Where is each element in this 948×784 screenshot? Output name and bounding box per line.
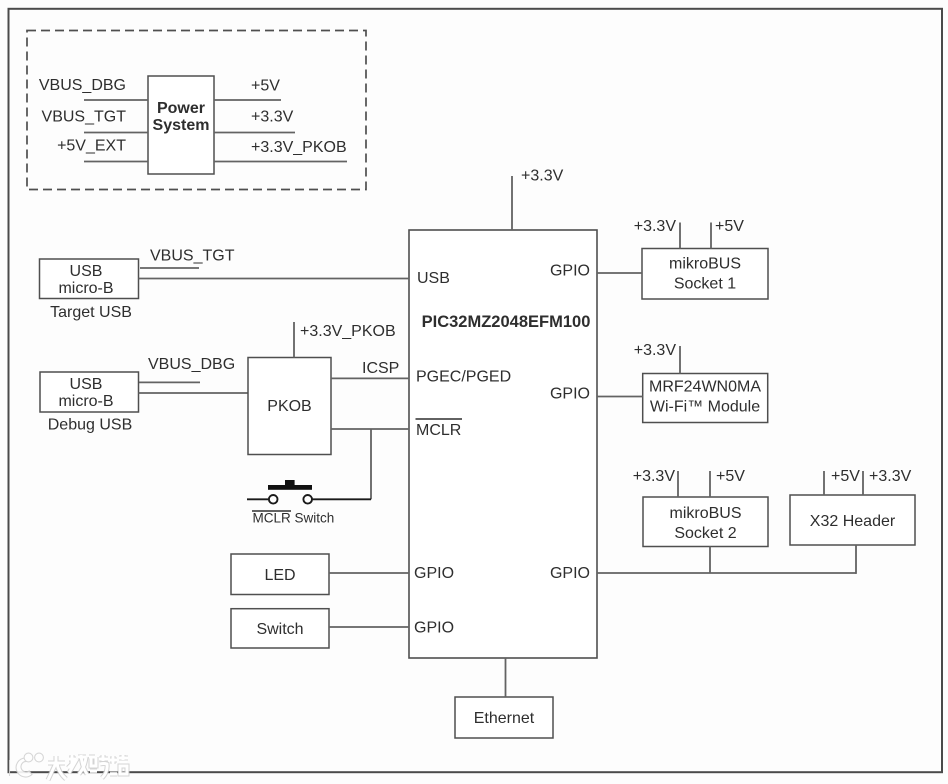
MCU U1 PIC32MZ2048EFM100 block bbox=[409, 230, 597, 658]
svg-text:PKOB: PKOB bbox=[267, 398, 311, 415]
svg-text:mikroBUS: mikroBUS bbox=[669, 505, 741, 522]
wire power system to +5V bbox=[214, 99, 281, 101]
svg-text:VBUS_TGT: VBUS_TGT bbox=[150, 248, 235, 265]
MCLR switch caption overline bbox=[252, 510, 291, 512]
wire X32 header down to GPIO bus bbox=[855, 545, 857, 574]
watermark text grey halo bbox=[48, 755, 128, 780]
svg-text:PGEC/PGED: PGEC/PGED bbox=[416, 369, 511, 386]
wire +3.3V stub Wi-Fi bbox=[679, 346, 681, 374]
svg-text:MRF24WN0MA: MRF24WN0MA bbox=[649, 379, 761, 396]
Ethernet block bbox=[455, 697, 553, 738]
wire MCU GPIO to Wi-Fi module bbox=[597, 396, 643, 398]
svg-text:+5V: +5V bbox=[715, 218, 744, 235]
wire +3.3V to MCU top bbox=[511, 176, 513, 230]
svg-text:mikroBUS: mikroBUS bbox=[669, 256, 741, 273]
svg-text:LED: LED bbox=[264, 567, 295, 584]
wire MCLR net down to switch bbox=[370, 429, 372, 499]
svg-text:GPIO: GPIO bbox=[550, 386, 590, 403]
wire Debug USB to PKOB bbox=[139, 392, 249, 394]
svg-text:Power: Power bbox=[157, 100, 205, 117]
wire +5V stub socket 1 bbox=[710, 223, 712, 249]
svg-text:+3.3V: +3.3V bbox=[521, 168, 564, 185]
svg-text:+3.3V: +3.3V bbox=[869, 468, 912, 485]
svg-text:GPIO: GPIO bbox=[550, 263, 590, 280]
watermark text white core bbox=[48, 755, 128, 780]
PKOB debugger block bbox=[248, 358, 331, 455]
MCLR switch button nub bbox=[285, 480, 295, 485]
wire +3.3V stub socket 2 bbox=[677, 471, 679, 497]
power system block U-PWR bbox=[148, 76, 214, 174]
svg-text:VBUS_DBG: VBUS_DBG bbox=[39, 77, 126, 94]
svg-text:GPIO: GPIO bbox=[550, 565, 590, 582]
svg-text:+5V: +5V bbox=[831, 468, 860, 485]
svg-text:+5V_EXT: +5V_EXT bbox=[57, 138, 126, 155]
svg-text:Target USB: Target USB bbox=[50, 304, 132, 321]
LED block bbox=[231, 554, 329, 595]
svg-text:+5V: +5V bbox=[251, 78, 280, 95]
svg-text:Switch: Switch bbox=[256, 621, 303, 638]
wire +3.3V stub socket 1 bbox=[679, 223, 681, 249]
svg-text:+3.3V: +3.3V bbox=[251, 109, 294, 126]
svg-text:PIC32MZ2048EFM100: PIC32MZ2048EFM100 bbox=[422, 313, 591, 331]
wire MCU GPIO to mikroBUS socket 1 bbox=[597, 272, 642, 274]
wire +3.3V stub X32 bbox=[862, 471, 864, 495]
svg-text:USB: USB bbox=[70, 263, 103, 280]
MCLR switch actuator bar bbox=[268, 485, 312, 490]
svg-text:+5V: +5V bbox=[716, 468, 745, 485]
wire +3.3V_PKOB to PKOB top bbox=[293, 322, 295, 358]
svg-text:Wi-Fi™ Module: Wi-Fi™ Module bbox=[650, 399, 760, 416]
svg-text:USB: USB bbox=[70, 376, 103, 393]
wire +5V stub X32 bbox=[823, 471, 825, 495]
svg-text:micro-B: micro-B bbox=[58, 280, 113, 297]
svg-text:USB: USB bbox=[417, 270, 450, 287]
svg-text:MCLR: MCLR bbox=[416, 422, 461, 439]
svg-text:Ethernet: Ethernet bbox=[474, 710, 535, 727]
svg-text:VBUS_DBG: VBUS_DBG bbox=[148, 356, 235, 373]
svg-text:VBUS_TGT: VBUS_TGT bbox=[42, 109, 127, 126]
wire MCU bottom to Ethernet bbox=[505, 658, 507, 697]
wire PKOB to MCU MCLR bbox=[331, 428, 409, 430]
svg-text:GPIO: GPIO bbox=[414, 565, 454, 582]
svg-text:micro-B: micro-B bbox=[58, 393, 113, 410]
wire VBUS_DBG to power system bbox=[84, 99, 148, 101]
MCLR switch left contact circle bbox=[269, 495, 278, 504]
svg-text:+3.3V_PKOB: +3.3V_PKOB bbox=[300, 323, 396, 340]
svg-text:+3.3V_PKOB: +3.3V_PKOB bbox=[251, 139, 347, 156]
wire Target USB to MCU USB pin bbox=[139, 278, 410, 280]
svg-text:GPIO: GPIO bbox=[414, 620, 454, 637]
wire power system to +3.3V_PKOB bbox=[214, 161, 347, 163]
wire power system to +3.3V bbox=[214, 132, 295, 134]
svg-text:+3.3V: +3.3V bbox=[634, 218, 677, 235]
Debug USB connector J2 bbox=[40, 372, 139, 412]
MCLR switch right contact circle bbox=[303, 495, 312, 504]
MCLR switch S1 left lead bbox=[247, 498, 269, 500]
svg-text:Socket 1: Socket 1 bbox=[674, 276, 736, 293]
svg-text:Debug USB: Debug USB bbox=[48, 417, 133, 434]
Target USB connector J1 bbox=[40, 259, 139, 299]
svg-text:+3.3V: +3.3V bbox=[633, 468, 676, 485]
mikroBUS Socket 2 block bbox=[643, 497, 768, 547]
wire ICSP PKOB to MCU PGEC/PGED bbox=[331, 377, 409, 379]
Switch block bbox=[231, 609, 329, 648]
wire LED to MCU GPIO bbox=[329, 572, 409, 574]
MCLR pin overline bbox=[416, 418, 463, 420]
watermark logo bbox=[10, 753, 44, 777]
MRF24WN0MA Wi-Fi module block bbox=[643, 374, 768, 423]
wire MCU GPIO bus to socket 2 and X32 header bbox=[597, 572, 856, 574]
svg-text:X32 Header: X32 Header bbox=[810, 513, 896, 530]
svg-text:+3.3V: +3.3V bbox=[634, 342, 677, 359]
mikroBUS Socket 1 block bbox=[642, 249, 768, 300]
net label VBUS_TGT underline bbox=[140, 267, 199, 269]
net label VBUS_DBG underline bbox=[139, 381, 200, 383]
wire Switch to MCU GPIO bbox=[329, 626, 409, 628]
svg-text:Socket 2: Socket 2 bbox=[674, 525, 736, 542]
svg-text:MCLR Switch: MCLR Switch bbox=[253, 511, 335, 526]
MCLR switch right lead bbox=[312, 498, 371, 500]
X32 Header block bbox=[790, 495, 915, 545]
svg-text:ICSP: ICSP bbox=[362, 360, 399, 377]
power system dashed region bbox=[27, 31, 366, 190]
wire VBUS_TGT to power system bbox=[84, 132, 148, 134]
wire +5V stub socket 2 bbox=[709, 471, 711, 497]
svg-text:System: System bbox=[153, 117, 210, 134]
wire +5V_EXT to power system bbox=[84, 161, 148, 163]
wire socket 2 down to GPIO bus bbox=[709, 547, 711, 574]
